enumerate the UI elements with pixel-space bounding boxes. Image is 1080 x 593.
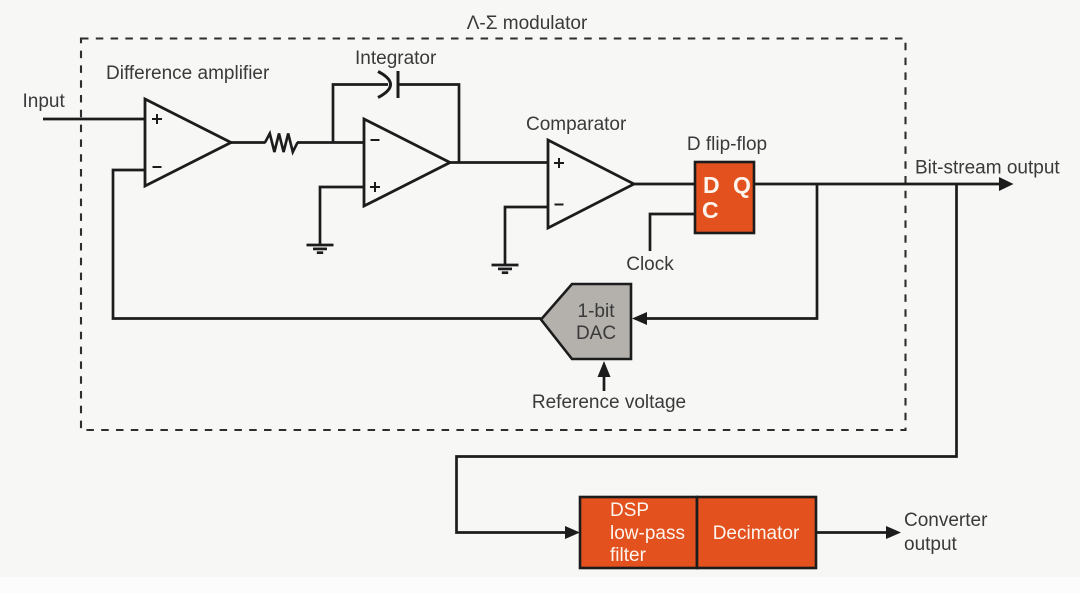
D flip-flop U4: [695, 162, 754, 233]
svg-text:C: C: [702, 197, 719, 223]
1-bit DAC U5: [541, 284, 631, 359]
wire: tap down to 1-bit DAC: [645, 184, 817, 319]
svg-text:DAC: DAC: [576, 323, 616, 344]
arrowhead into DSP filter: [565, 526, 580, 539]
svg-text:Difference amplifier: Difference amplifier: [106, 63, 270, 84]
svg-text:D flip-flop: D flip-flop: [687, 134, 767, 155]
svg-text:D: D: [703, 172, 720, 198]
reference voltage arrow: [603, 374, 606, 391]
svg-text:1-bit: 1-bit: [578, 301, 616, 322]
wire: clock input: [650, 214, 695, 251]
svg-text:Decimator: Decimator: [713, 523, 800, 544]
arrowhead into DAC: [632, 312, 647, 325]
op-amp U1 difference amplifier: [145, 99, 231, 186]
op-amp U2 integrator: [364, 119, 450, 206]
wire: decimator to converter output arrow: [816, 531, 887, 534]
svg-text:low-pass: low-pass: [610, 523, 685, 544]
svg-text:Reference voltage: Reference voltage: [532, 392, 686, 413]
wire: diff amp output to integrator: [229, 141, 364, 144]
svg-text:Bit-stream output: Bit-stream output: [915, 158, 1060, 179]
svg-text:Comparator: Comparator: [526, 114, 627, 135]
wire: comparator minus input to ground: [505, 207, 548, 264]
svg-text:DSP: DSP: [610, 500, 649, 521]
capacitor C1 (integrator feedback): [378, 71, 459, 163]
wire: integrator output to comparator: [448, 161, 548, 164]
svg-text:filter: filter: [610, 545, 647, 566]
arrowhead converter output: [886, 526, 901, 539]
svg-text:Input: Input: [23, 91, 66, 112]
ground (integrator plus input): [307, 245, 334, 253]
wire: input to difference amplifier: [43, 118, 146, 121]
op-amp U3 comparator: [548, 140, 634, 228]
svg-text:Clock: Clock: [626, 254, 674, 275]
arrowhead bit-stream output: [999, 177, 1014, 191]
svg-text:output: output: [904, 534, 958, 555]
svg-text:Converter: Converter: [904, 510, 988, 531]
resistor R1: [265, 134, 298, 153]
wire: integrator plus input to ground: [320, 187, 364, 244]
wire: comparator output to D flip-flop: [632, 183, 695, 186]
svg-text:Λ-Σ modulator: Λ-Σ modulator: [467, 13, 588, 34]
Decimator block: [697, 497, 816, 568]
ground (comparator minus input): [492, 265, 519, 273]
wire: junction up to integrator feedback: [333, 85, 388, 143]
wire: Q output to bit-stream arrow: [754, 183, 1000, 186]
wire: feedback into minus input of difference amplifier: [113, 170, 541, 319]
dashed modulator boundary: [81, 39, 906, 431]
svg-text:Integrator: Integrator: [355, 48, 437, 69]
wire: bit-stream tap down to DSP filter: [457, 184, 957, 533]
svg-text:Q: Q: [733, 172, 751, 198]
DSP low-pass filter block: [580, 497, 697, 568]
